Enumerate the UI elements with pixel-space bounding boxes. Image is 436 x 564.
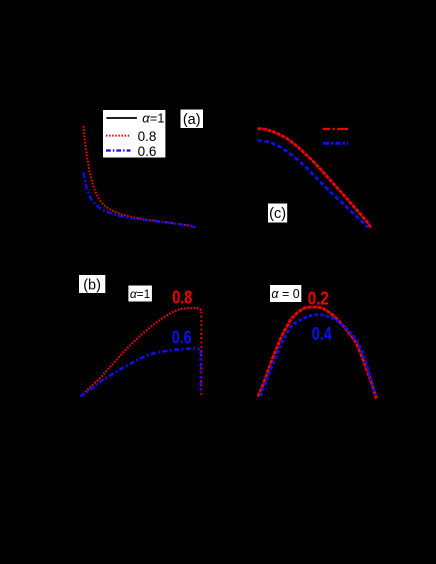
svg-text:α=1: α=1 xyxy=(130,287,151,301)
svg-text:(c): (c) xyxy=(269,206,286,222)
svg-text:0.2: 0.2 xyxy=(308,289,329,309)
svg-text:0.6: 0.6 xyxy=(138,144,157,159)
svg-text:0.8: 0.8 xyxy=(172,287,192,307)
svg-text:(a): (a) xyxy=(183,112,201,128)
svg-text:(b): (b) xyxy=(83,277,101,293)
svg-text:0.4: 0.4 xyxy=(312,324,332,344)
svg-text:0.8: 0.8 xyxy=(138,129,157,144)
svg-text:0.6: 0.6 xyxy=(172,327,192,347)
svg-text:α=1: α=1 xyxy=(142,111,164,126)
svg-text:α = 0: α = 0 xyxy=(271,287,299,301)
